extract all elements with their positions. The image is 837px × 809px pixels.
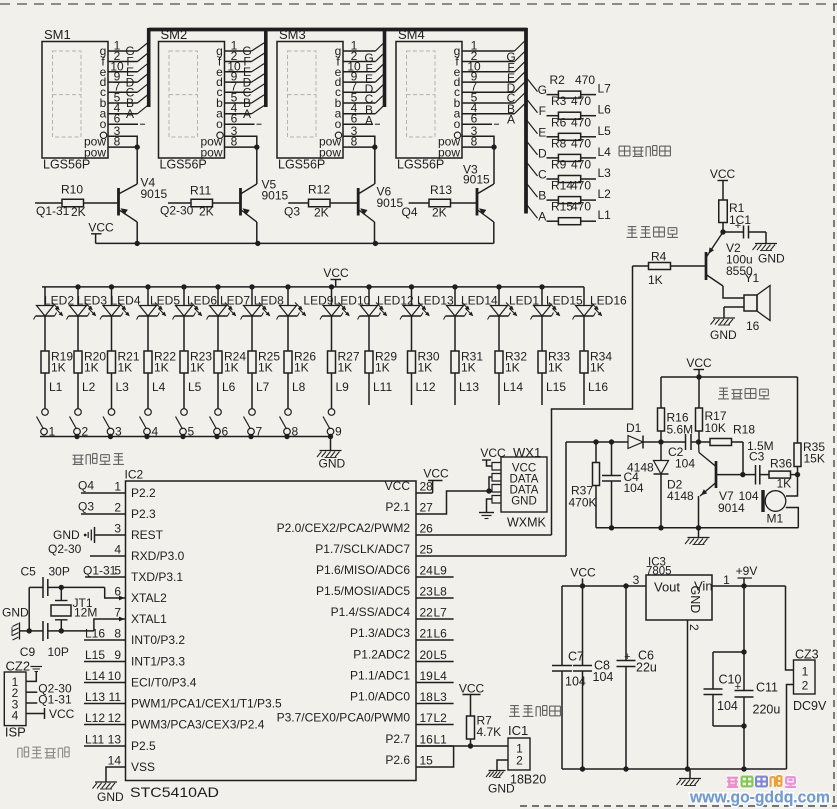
label 按键开关 (key switches) xyxy=(73,454,84,456)
resistor R8 470 (segment line L4) xyxy=(526,140,538,155)
svg-text:P3.7/CEX0/PCA0/PWM0: P3.7/CEX0/PCA0/PWM0 xyxy=(277,711,411,725)
SM3 bus bar xyxy=(383,28,387,107)
svg-text:18B20: 18B20 xyxy=(510,773,546,787)
svg-text:VSS: VSS xyxy=(131,760,155,774)
capacitor C8 104 xyxy=(582,586,584,666)
svg-text:L7: L7 xyxy=(256,380,270,394)
ground (sound circuit) xyxy=(698,528,700,537)
node: R1/C1/V2 emitter xyxy=(720,229,725,234)
svg-text:L5: L5 xyxy=(434,648,448,662)
svg-text:1K: 1K xyxy=(548,361,563,375)
svg-text:L9: L9 xyxy=(434,564,448,578)
svg-text:R15: R15 xyxy=(551,200,573,214)
LED LED2 xyxy=(44,287,46,306)
svg-text:Q1-31: Q1-31 xyxy=(83,564,117,578)
transistor V6 9015 (PNP) xyxy=(357,188,360,216)
svg-text:L3: L3 xyxy=(598,166,612,180)
svg-text:470: 470 xyxy=(571,136,591,150)
net stub Q2-30 (pin 4) xyxy=(90,555,126,557)
svg-text:104: 104 xyxy=(717,699,738,713)
SM2 common wire to driver transistor xyxy=(256,147,258,184)
capacitor C3 104 xyxy=(743,474,756,476)
net stubs L16-L11 (pins 8-13) xyxy=(84,639,126,641)
svg-text:L2: L2 xyxy=(434,711,448,725)
svg-text:26: 26 xyxy=(420,522,434,536)
LED LED5 xyxy=(145,284,150,289)
svg-text:25: 25 xyxy=(420,543,434,557)
svg-text:R3: R3 xyxy=(551,94,567,108)
svg-text:13: 13 xyxy=(108,733,122,747)
svg-text:Q2-30: Q2-30 xyxy=(48,542,82,556)
svg-text:2: 2 xyxy=(802,679,809,693)
svg-text:L4: L4 xyxy=(598,145,612,159)
svg-text:220u: 220u xyxy=(753,703,781,717)
switch 8 xyxy=(285,409,292,416)
svg-text:VCC: VCC xyxy=(710,167,736,181)
svg-text:Q1-31: Q1-31 xyxy=(38,693,72,707)
svg-text:20: 20 xyxy=(420,648,434,662)
svg-text:C: C xyxy=(538,168,547,182)
svg-text:17: 17 xyxy=(420,711,434,725)
svg-text:4: 4 xyxy=(114,543,121,557)
svg-text:5.6M: 5.6M xyxy=(667,423,694,437)
svg-text:1: 1 xyxy=(114,480,121,494)
CZ2 pin1 to ground xyxy=(26,672,36,682)
svg-text:IC1: IC1 xyxy=(508,723,528,738)
svg-text:4: 4 xyxy=(12,709,19,723)
svg-text:2: 2 xyxy=(114,501,121,515)
svg-text:10P: 10P xyxy=(48,645,69,659)
svg-text:9015: 9015 xyxy=(377,196,404,210)
svg-text:P1.4/SS/ADC4: P1.4/SS/ADC4 xyxy=(331,605,411,619)
svg-text:P1.2ADC2: P1.2ADC2 xyxy=(353,648,410,662)
speaker Y1 xyxy=(723,286,744,298)
svg-text:1K: 1K xyxy=(648,273,663,287)
ground (VSS pin 14) xyxy=(106,767,126,782)
segment bus top rail xyxy=(149,28,528,32)
wire R18 to V7 base node xyxy=(742,442,744,475)
svg-text:GND: GND xyxy=(488,782,515,796)
svg-text:L4: L4 xyxy=(152,380,166,394)
svg-text:10K: 10K xyxy=(705,421,726,435)
VCC rail for LED row xyxy=(42,286,584,288)
junction dots on driver VCC rail xyxy=(135,241,140,246)
SM3 segment pin wires xyxy=(343,50,375,52)
svg-text:P1.3/ADC3: P1.3/ADC3 xyxy=(350,626,410,640)
svg-text:LGS56P: LGS56P xyxy=(160,158,207,172)
svg-text:Q1-31: Q1-31 xyxy=(36,204,70,218)
label 鸣响电路 (buzzer circuit) xyxy=(628,226,637,228)
ground (speaker) xyxy=(723,307,725,318)
LED LED8 xyxy=(249,284,254,289)
svg-text:Q4: Q4 xyxy=(78,479,94,493)
svg-text:R13: R13 xyxy=(430,183,452,197)
svg-text:P2.0/CEX2/PCA2/PWM2: P2.0/CEX2/PCA2/PWM2 xyxy=(277,521,411,535)
VCC rail for display drivers xyxy=(96,242,494,244)
svg-text:10: 10 xyxy=(108,669,122,683)
svg-text:DC9V: DC9V xyxy=(793,699,827,713)
svg-text:2K: 2K xyxy=(314,206,329,220)
LED LED12 xyxy=(366,284,371,289)
LED LED13 xyxy=(409,284,414,289)
power rail +9V xyxy=(712,585,786,587)
svg-text:L14: L14 xyxy=(503,380,523,394)
svg-text:9015: 9015 xyxy=(141,187,168,201)
svg-text:LED16: LED16 xyxy=(590,294,627,308)
resistor R11 2K (base of V5) xyxy=(168,202,191,204)
power symbol VCC (CZ2 pin4) xyxy=(26,713,45,715)
resistor R16 5.6M xyxy=(660,377,662,408)
power ground rail xyxy=(562,768,787,770)
svg-text:9015: 9015 xyxy=(463,173,490,187)
svg-text:IC2: IC2 xyxy=(125,468,144,482)
svg-text:R10: R10 xyxy=(61,183,83,197)
resistor R37 470K xyxy=(595,442,597,463)
SM4 common wire to driver transistor xyxy=(493,147,495,184)
svg-text:1K: 1K xyxy=(190,361,205,375)
LED LED9 xyxy=(285,284,290,289)
svg-text:L2: L2 xyxy=(598,187,612,201)
svg-text:GND: GND xyxy=(97,790,124,804)
svg-text:P2.2: P2.2 xyxy=(131,486,156,500)
svg-text:VCC: VCC xyxy=(480,446,506,460)
svg-text:9014: 9014 xyxy=(718,501,745,515)
svg-text:8: 8 xyxy=(351,135,358,149)
svg-text:L2: L2 xyxy=(82,380,96,394)
svg-text:470K: 470K xyxy=(569,496,597,510)
net stub Q4 (pin 1) xyxy=(81,492,126,494)
svg-text:470: 470 xyxy=(571,158,591,172)
segment bus vertical bar xyxy=(524,28,528,214)
svg-text:P2.7: P2.7 xyxy=(385,732,410,746)
resistor R33 1K xyxy=(541,316,543,351)
svg-text:9015: 9015 xyxy=(262,189,289,203)
svg-text:R4: R4 xyxy=(651,250,667,264)
svg-text:GND: GND xyxy=(53,528,80,542)
svg-text:104: 104 xyxy=(739,489,759,503)
resistor R25 1K xyxy=(251,316,253,351)
switch 3 xyxy=(108,409,115,416)
svg-text:2K: 2K xyxy=(71,205,86,219)
svg-text:L1: L1 xyxy=(434,733,448,747)
switch 2 xyxy=(75,409,82,416)
LED LED3 xyxy=(75,284,80,289)
svg-text:470: 470 xyxy=(575,73,595,87)
svg-text:R8: R8 xyxy=(551,136,567,150)
svg-text:L8: L8 xyxy=(292,380,306,394)
svg-text:Vout: Vout xyxy=(654,580,680,595)
svg-text:470: 470 xyxy=(571,200,591,214)
ground symbol at REST (pin 3) xyxy=(95,534,126,536)
microcontroller IC2 STC5410AD xyxy=(126,481,417,781)
capacitor C6 22u (electrolytic) xyxy=(625,586,627,661)
svg-text:104: 104 xyxy=(675,457,695,471)
LED LED10 xyxy=(329,284,334,289)
SM2 bus bar xyxy=(264,28,268,107)
svg-text:16: 16 xyxy=(746,319,760,333)
resistor R9 470 (segment line L3) xyxy=(526,162,538,177)
svg-text:P1.1/ADC1: P1.1/ADC1 xyxy=(350,669,410,683)
wire from MCU P2.0 to R4 xyxy=(552,266,633,535)
svg-text:RXD/P3.0: RXD/P3.0 xyxy=(131,549,185,563)
svg-text:L7: L7 xyxy=(434,606,448,620)
svg-text:+: + xyxy=(624,651,630,663)
svg-text:R6: R6 xyxy=(551,115,567,129)
svg-text:A: A xyxy=(507,113,515,127)
svg-text:L11: L11 xyxy=(85,733,104,747)
LED LED15 xyxy=(539,284,544,289)
svg-text:1K: 1K xyxy=(258,361,273,375)
SM1 bus bar xyxy=(147,28,151,107)
svg-text:4148: 4148 xyxy=(667,489,694,503)
svg-text:VCC: VCC xyxy=(423,467,449,481)
svg-text:8: 8 xyxy=(114,135,121,149)
svg-text:A: A xyxy=(538,210,546,224)
resistor R15 470 (segment line L1) xyxy=(526,204,538,219)
svg-text:L11: L11 xyxy=(373,380,392,394)
LED LED7 xyxy=(215,284,220,289)
resistor R13 2K (base of V3) xyxy=(409,202,429,204)
svg-text:L6: L6 xyxy=(598,103,612,117)
svg-text:L15: L15 xyxy=(546,380,566,394)
svg-text:22u: 22u xyxy=(636,661,657,675)
svg-text:P1.0/ADC0: P1.0/ADC0 xyxy=(350,690,410,704)
svg-text:WXMK: WXMK xyxy=(507,516,547,530)
svg-text:L9: L9 xyxy=(336,380,350,394)
svg-text:L6: L6 xyxy=(222,380,236,394)
svg-text:P1.6/MISO/ADC6: P1.6/MISO/ADC6 xyxy=(316,563,410,577)
svg-text:o: o xyxy=(216,117,223,131)
watermark 广电电器网 xyxy=(727,775,738,780)
svg-text:www.go-gddq.com: www.go-gddq.com xyxy=(689,789,830,807)
svg-text:12: 12 xyxy=(108,711,122,725)
svg-text:R36: R36 xyxy=(770,457,792,471)
svg-text:TXD/P3.1: TXD/P3.1 xyxy=(131,570,183,584)
svg-text:L1: L1 xyxy=(49,380,63,394)
label 编程接口 (programming interface) xyxy=(17,748,19,758)
svg-text:PWM3/PCA3/CEX3/P2.4: PWM3/PCA3/CEX3/P2.4 xyxy=(131,718,265,732)
net stub Q2-30 (CZ2 pin2) xyxy=(26,691,37,693)
svg-text:P1.5/MOSI/ADC5: P1.5/MOSI/ADC5 xyxy=(316,584,410,598)
svg-text:R12: R12 xyxy=(308,183,330,197)
svg-text:INT1/P3.3: INT1/P3.3 xyxy=(131,655,185,669)
transistor V7 9014 (NPN) xyxy=(715,461,718,488)
svg-text:B: B xyxy=(538,189,546,203)
resistor R6 470 (segment line L5) xyxy=(526,119,538,134)
svg-text:C11: C11 xyxy=(756,681,778,695)
node dots on detector line xyxy=(593,439,598,444)
power symbol VCC (WX1) xyxy=(487,460,493,466)
svg-text:GND: GND xyxy=(710,328,737,342)
label 温度传感 (temperature sensing) xyxy=(510,705,519,707)
svg-text:L7: L7 xyxy=(598,82,612,96)
SM1 segment pin wires xyxy=(108,50,138,52)
SM1 common wire to driver transistor xyxy=(136,147,138,184)
transistor V3 9015 (PNP) xyxy=(476,188,479,216)
svg-text:A: A xyxy=(243,107,251,121)
svg-text:o: o xyxy=(100,117,107,131)
svg-text:+: + xyxy=(735,220,741,232)
svg-text:C9: C9 xyxy=(20,645,36,659)
sound circuit ground rail xyxy=(596,527,798,529)
resistor R7 4.7K xyxy=(467,716,475,739)
svg-text:L13: L13 xyxy=(459,380,479,394)
svg-text:L4: L4 xyxy=(434,669,448,683)
svg-text:GND: GND xyxy=(688,586,702,614)
svg-text:3: 3 xyxy=(633,573,640,587)
svg-text:L12: L12 xyxy=(416,380,436,394)
net stubs L9-L1 (pins 24-16) xyxy=(416,576,454,578)
wire to XTAL2 (pin 6) xyxy=(105,587,126,598)
svg-text:8: 8 xyxy=(114,627,121,641)
svg-text:1K: 1K xyxy=(505,361,520,375)
transistor V5 9015 (PNP) xyxy=(239,188,242,216)
svg-text:L5: L5 xyxy=(598,124,612,138)
svg-text:3: 3 xyxy=(114,522,121,536)
svg-text:L3: L3 xyxy=(116,380,130,394)
svg-text:8: 8 xyxy=(231,135,238,149)
svg-text:A: A xyxy=(365,114,373,128)
svg-text:D1: D1 xyxy=(626,421,642,435)
svg-text:F: F xyxy=(539,104,546,118)
svg-text:WX1: WX1 xyxy=(513,445,541,460)
resistor R1 (1C1) xyxy=(719,200,728,223)
svg-text:4.7K: 4.7K xyxy=(477,725,502,739)
svg-text:Q2-30: Q2-30 xyxy=(160,204,194,218)
power rail VCC (5V) xyxy=(562,585,646,587)
svg-text:P2.3: P2.3 xyxy=(131,507,156,521)
resistor R30 1K xyxy=(411,316,413,351)
wire pin 26 (P2.0) toward R4 xyxy=(416,534,552,536)
LED LED4 xyxy=(109,284,114,289)
svg-text:470: 470 xyxy=(571,94,591,108)
net stub Q3 (pin 2) xyxy=(81,513,126,515)
svg-text:R9: R9 xyxy=(551,158,567,172)
svg-text:2K: 2K xyxy=(199,205,214,219)
SM4 segment pin wires xyxy=(462,50,515,52)
svg-text:1K: 1K xyxy=(154,361,169,375)
transistor V2 8550 (PNP) xyxy=(705,252,708,280)
wire P2.6 joins data line xyxy=(416,746,454,767)
ground (power supply) xyxy=(689,769,691,778)
svg-text:ECI/T0/P3.4: ECI/T0/P3.4 xyxy=(131,676,197,690)
svg-text:L16: L16 xyxy=(588,380,608,394)
svg-text:VCC: VCC xyxy=(686,356,712,370)
svg-text:XTAL2: XTAL2 xyxy=(131,591,167,605)
svg-text:2: 2 xyxy=(516,754,523,768)
svg-text:8: 8 xyxy=(471,135,478,149)
svg-text:GND: GND xyxy=(758,252,785,266)
svg-text:24: 24 xyxy=(420,564,434,578)
svg-text:C3: C3 xyxy=(749,450,765,464)
svg-text:1K: 1K xyxy=(51,361,66,375)
svg-text:L6: L6 xyxy=(434,627,448,641)
resistor R20 1K xyxy=(77,316,79,351)
wire MCU P1.7 to detector xyxy=(565,442,567,556)
resistor R10 2K (base of V4) xyxy=(35,202,62,204)
svg-text:14: 14 xyxy=(108,754,122,768)
svg-text:104: 104 xyxy=(624,481,644,495)
SM4 diagonal wires into segment bus xyxy=(515,39,528,52)
resistor R19 1K xyxy=(44,316,46,351)
ground (WX1) xyxy=(487,499,493,512)
resistor R34 1K xyxy=(583,316,585,351)
label 笔画驱动 (segment drive) xyxy=(619,145,630,147)
resistor R14 470 (segment line L2) xyxy=(526,183,538,198)
ground (C1) xyxy=(765,232,767,243)
svg-text:22: 22 xyxy=(420,606,434,620)
capacitor C7 104 xyxy=(561,586,563,666)
resistor R35 15K xyxy=(797,377,799,443)
svg-text:1K: 1K xyxy=(338,361,353,375)
LED LED6 xyxy=(181,284,186,289)
svg-text:VCC: VCC xyxy=(385,479,411,493)
svg-text:16: 16 xyxy=(420,733,434,747)
svg-text:9: 9 xyxy=(335,425,342,439)
svg-text:1: 1 xyxy=(723,573,730,587)
transistor V4 9015 (PNP) xyxy=(117,188,120,216)
svg-text:LGS56P: LGS56P xyxy=(397,158,444,172)
svg-text:R2: R2 xyxy=(550,73,566,87)
switch 5 xyxy=(181,409,188,416)
svg-text:P2.5: P2.5 xyxy=(131,739,156,753)
svg-text:30P: 30P xyxy=(49,565,70,579)
svg-text:28: 28 xyxy=(420,480,434,494)
svg-text:2K: 2K xyxy=(432,206,447,220)
resistor R18 1.5M xyxy=(699,441,711,443)
svg-text:C5: C5 xyxy=(21,565,37,579)
resistor R21 1K xyxy=(111,316,113,351)
svg-text:1K: 1K xyxy=(118,361,133,375)
svg-text:R14: R14 xyxy=(551,179,573,193)
ground (switch rail) xyxy=(330,437,332,451)
svg-text:1K: 1K xyxy=(777,477,792,491)
svg-text:1K: 1K xyxy=(84,361,99,375)
IC3 GND lead xyxy=(687,620,689,769)
svg-text:o: o xyxy=(454,117,461,131)
svg-text:19: 19 xyxy=(420,669,434,683)
svg-text:470: 470 xyxy=(571,115,591,129)
svg-text:Q4: Q4 xyxy=(402,205,418,219)
svg-text:REST: REST xyxy=(131,528,164,542)
svg-text:LED4: LED4 xyxy=(111,294,141,308)
svg-text:VCC: VCC xyxy=(459,682,485,696)
svg-text:104: 104 xyxy=(593,670,614,684)
svg-text:C7: C7 xyxy=(568,650,584,664)
resistor R2 470 (segment line L7) xyxy=(526,77,538,92)
wire to XTAL1 (pin 7) xyxy=(94,619,126,631)
crystal JT1 12M xyxy=(61,586,104,588)
switch 9 xyxy=(328,409,335,416)
svg-text:o: o xyxy=(335,117,342,131)
LED LED14 xyxy=(452,284,457,289)
svg-text:LGS56P: LGS56P xyxy=(43,158,90,172)
svg-text:P2.1: P2.1 xyxy=(385,500,410,514)
svg-text:CZ2: CZ2 xyxy=(6,659,31,674)
svg-text:STC5410AD: STC5410AD xyxy=(130,784,219,800)
svg-text:VCC: VCC xyxy=(49,707,75,721)
diode D2 4148 xyxy=(660,442,662,461)
svg-text:L16: L16 xyxy=(85,627,105,641)
net stub Q1-31 (CZ2 pin3) xyxy=(26,702,37,704)
svg-text:P2.6: P2.6 xyxy=(385,753,410,767)
WX1 DATA pins tied xyxy=(489,477,492,491)
SM2 segment pin wires xyxy=(225,50,252,52)
svg-text:VCC: VCC xyxy=(570,566,596,580)
svg-text:R11: R11 xyxy=(190,184,211,198)
switch common rail xyxy=(40,436,332,438)
svg-text:Q3: Q3 xyxy=(284,205,300,219)
